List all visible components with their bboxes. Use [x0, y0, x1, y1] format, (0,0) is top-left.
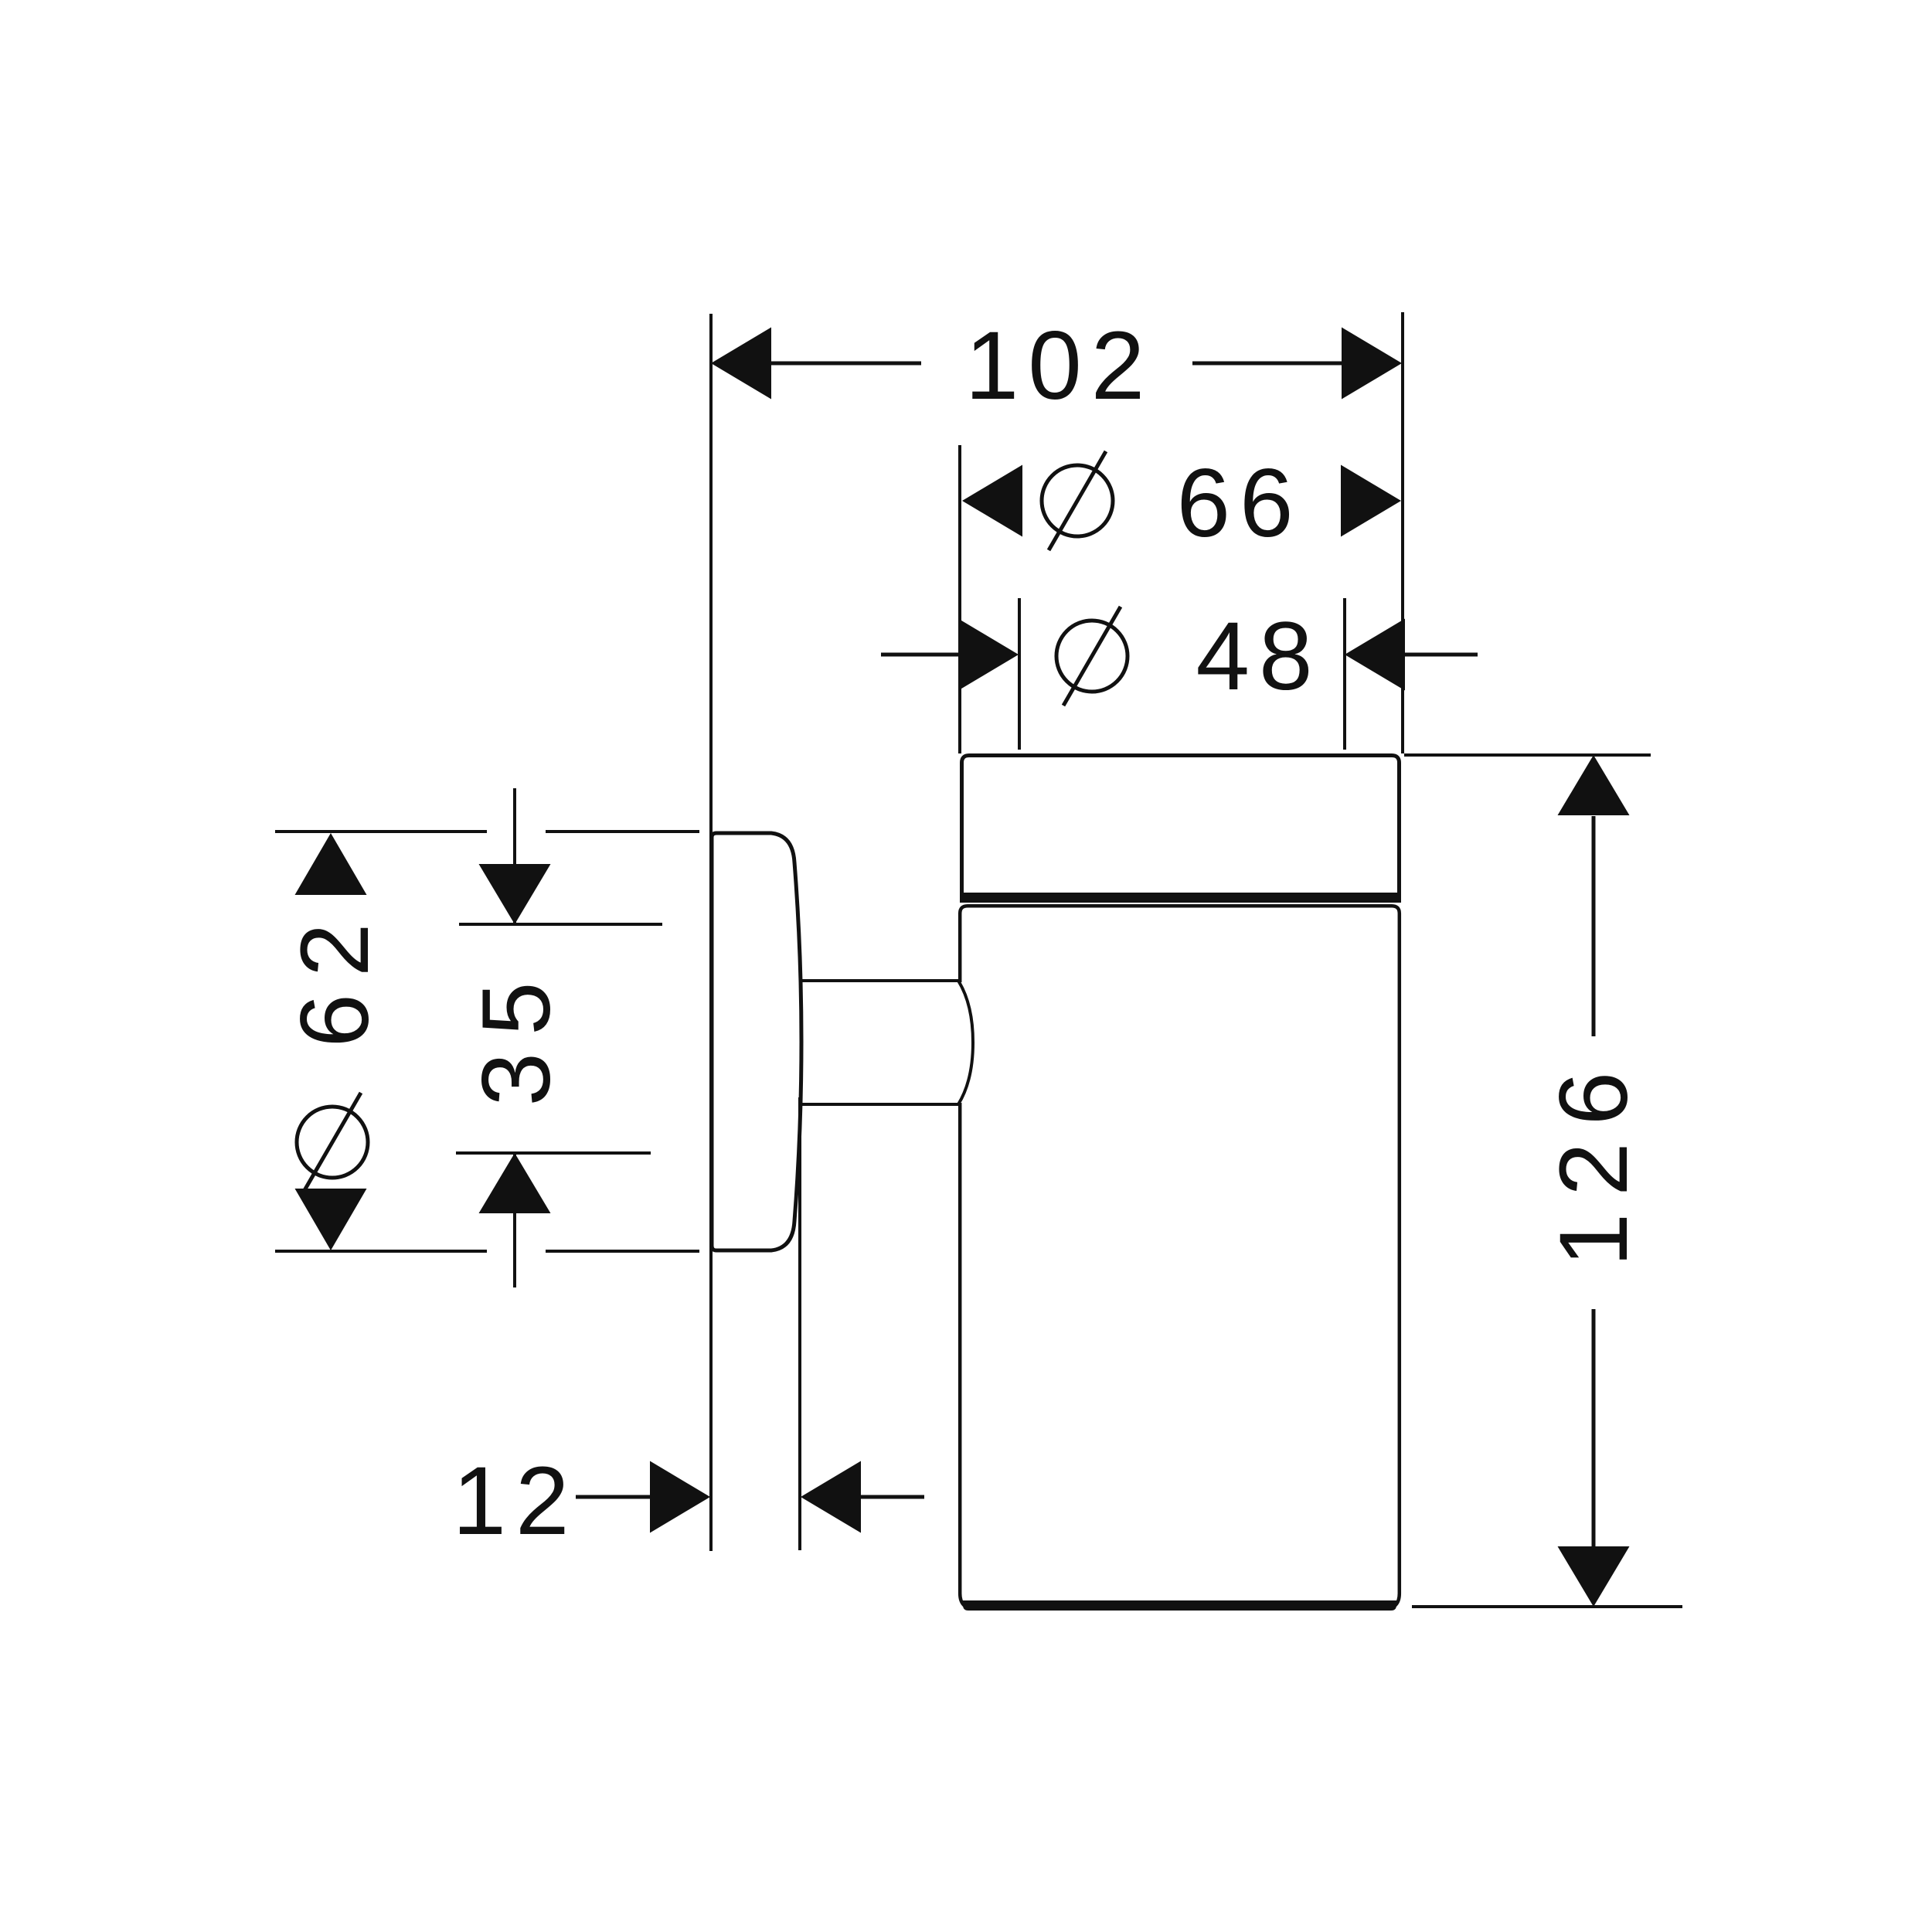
dim 35 upper line [459, 923, 662, 926]
phi62 bottom extension segments [275, 1250, 487, 1253]
dim 35 lower line [456, 1151, 651, 1155]
arm bottom line [801, 1103, 958, 1106]
tumbler body outline [960, 906, 1400, 1609]
plate widest-point extension line [798, 1097, 801, 1550]
dim 102 left arrowhead [711, 328, 771, 400]
dim 35 bottom tail [513, 1153, 516, 1287]
phi48 left tail [881, 653, 960, 657]
phi62 down arrowhead [295, 1189, 367, 1250]
wall line [709, 314, 713, 1551]
phi symbol for 48 [1056, 607, 1128, 706]
dim 126 top arrowhead [1558, 755, 1630, 815]
arm end bulge arc [958, 981, 973, 1104]
dim 102 line right segment [1192, 362, 1343, 366]
cup holder cap outline [962, 756, 1400, 902]
svg-text:35: 35 [463, 964, 570, 1106]
phi48 right extension line [1343, 598, 1346, 750]
phi48 left extension line [1018, 598, 1021, 750]
dim 12 right-pointing arrowhead [650, 1461, 710, 1533]
tumbler body thick bottom band [963, 1600, 1396, 1611]
dim 102 right arrowhead [1342, 328, 1402, 400]
arm top line [801, 979, 958, 982]
phi62 up arrowhead [295, 833, 367, 895]
dim 126 line upper segment [1592, 816, 1596, 1036]
svg-text:102: 102 [965, 312, 1155, 420]
svg-text:62: 62 [281, 906, 389, 1047]
phi48 right tail [1402, 653, 1478, 657]
wall plate [712, 833, 801, 1250]
dim 35 top tail [513, 788, 516, 924]
dim 12 left-pointing arrowhead [801, 1461, 861, 1533]
cup holder cap thick bottom band [960, 893, 1401, 903]
phi66 left arrowhead [962, 465, 1022, 537]
right extension line (102/66) [1401, 312, 1404, 753]
phi48 left arrowhead [958, 619, 1019, 691]
svg-text:66: 66 [1176, 450, 1302, 557]
phi62 top extension segments [275, 830, 487, 833]
dim 126 bottom extension [1412, 1605, 1682, 1608]
dim 35 down arrowhead [479, 864, 551, 924]
dim 12 left tail [576, 1495, 651, 1499]
phi48 right arrowhead [1345, 619, 1405, 691]
dim 12 right tail [859, 1495, 924, 1499]
dim 126 line lower segment [1592, 1309, 1596, 1547]
dim 126 top extension [1404, 753, 1651, 757]
svg-text:12: 12 [452, 1447, 578, 1555]
dim 35 up arrowhead [479, 1153, 551, 1213]
phi symbol for 62 (rotated column) [297, 1093, 368, 1192]
dim 102 line left segment [770, 362, 921, 366]
svg-text:48: 48 [1196, 603, 1321, 710]
phi66 right arrowhead [1341, 465, 1401, 537]
phi symbol for 66 [1042, 451, 1113, 550]
phi66 left extension line [958, 445, 961, 753]
svg-text:126: 126 [1540, 1055, 1648, 1267]
dim 126 bottom arrowhead [1558, 1546, 1630, 1607]
